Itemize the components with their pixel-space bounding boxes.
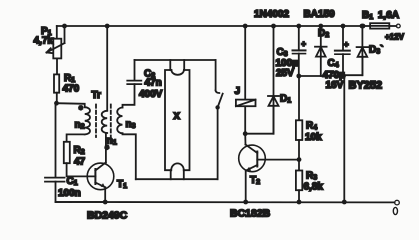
transistor T1 <box>87 163 114 190</box>
svg-text:R2: R2 <box>74 145 85 156</box>
svg-text:+: + <box>301 40 306 49</box>
node C3/R4 junction <box>296 74 301 79</box>
wire fuse to terminal <box>389 25 396 27</box>
fuse B1 <box>370 23 389 28</box>
svg-text:BA159: BA159 <box>304 9 336 20</box>
diode D2 <box>315 47 327 57</box>
wire junction to R4 <box>298 76 300 120</box>
wire switch down <box>217 107 219 179</box>
wire C1 to bottom bus <box>56 182 106 202</box>
node T2 emitter on bus <box>243 200 248 205</box>
svg-text:B1 1,6A: B1 1,6A <box>362 10 399 21</box>
svg-text:T1: T1 <box>117 179 127 190</box>
svg-text:R1: R1 <box>64 73 75 84</box>
wire node down to C1 <box>55 103 57 177</box>
svg-text:10k: 10k <box>305 132 322 143</box>
svg-text:BC182B: BC182B <box>230 208 271 220</box>
resistor R4 <box>296 120 302 140</box>
svg-text:100n: 100n <box>58 188 81 199</box>
transformer Tr core dashed lines <box>96 105 111 138</box>
label 0 <box>393 207 397 214</box>
switch contact J1 <box>216 60 223 107</box>
svg-text:J: J <box>235 86 241 97</box>
node P1 wiper on bus <box>62 24 67 29</box>
node D3 top bus <box>360 24 365 29</box>
wire R1 to node <box>56 93 58 104</box>
wire T2 emitter to bus <box>245 170 247 202</box>
wire C3 drop from bus <box>298 26 300 50</box>
node fuse branch on bus <box>361 24 366 29</box>
svg-text:470: 470 <box>63 84 80 95</box>
node switch to bottom <box>215 105 219 109</box>
wire R4 to node <box>298 140 300 171</box>
wire R3 to bus <box>298 190 300 202</box>
wire junction line y76 <box>299 75 344 77</box>
node n1 top bus <box>105 24 110 29</box>
wire relay node to T2 collector <box>244 134 246 145</box>
capacitor C2 <box>127 81 141 85</box>
node D2 top bus <box>318 24 323 29</box>
node relay bottom / D1 <box>243 131 248 136</box>
wire D3 drop from bus <box>361 26 363 75</box>
svg-text:4,7k: 4,7k <box>34 36 54 47</box>
wire upper horizontal C2 to switch <box>135 59 216 61</box>
svg-text:C4: C4 <box>328 58 339 69</box>
resistor R3 <box>296 171 302 191</box>
wire top bus left corner down to P1 <box>56 26 58 39</box>
svg-text:D1: D1 <box>280 94 291 105</box>
svg-text:Tr: Tr <box>92 90 102 101</box>
wire node to n2 top <box>57 103 85 107</box>
wire junction down to bus <box>343 76 345 202</box>
wire bottom bus <box>56 201 395 203</box>
svg-text:6,8k: 6,8k <box>304 182 324 193</box>
winding n2 <box>85 107 90 134</box>
wire bus to fuse <box>363 25 370 27</box>
wire top bus <box>57 25 363 27</box>
svg-text:16V: 16V <box>326 80 344 91</box>
svg-text:BY252: BY252 <box>349 80 383 92</box>
svg-text:D2: D2 <box>318 28 329 39</box>
winding n3 <box>117 108 122 134</box>
wire C2 bottom to n3 top <box>123 84 135 107</box>
capacitor C1 <box>45 178 65 182</box>
node BY252 line on bus <box>342 200 347 205</box>
node relay top bus <box>243 24 248 29</box>
wire T1 collector to n1 bottom <box>105 133 107 162</box>
svg-text:*: * <box>79 104 83 114</box>
svg-text:T2: T2 <box>250 175 260 186</box>
relay coil J <box>236 100 256 107</box>
svg-text:+: + <box>344 40 349 49</box>
wire relay J drop from bus <box>244 26 246 134</box>
svg-text:x: x <box>174 110 181 122</box>
svg-text:n2: n2 <box>75 120 85 131</box>
node D1 top bus <box>271 24 276 29</box>
resistor R2 <box>64 142 70 163</box>
svg-text:R4: R4 <box>306 121 317 132</box>
resistor R1 <box>54 74 59 92</box>
wire T1 emitter to bus <box>104 187 106 202</box>
wire R2 to T1 base <box>67 163 96 176</box>
wire n2 bottom to R2 <box>67 134 85 141</box>
node R3 on bus <box>297 200 302 205</box>
svg-text:C3: C3 <box>277 47 288 58</box>
svg-text:D3`: D3` <box>369 45 383 56</box>
svg-text:+12V: +12V <box>385 33 405 42</box>
wire n3 bottom to box X bottom wire <box>123 133 136 179</box>
wire C4 to junction <box>342 54 344 76</box>
diode D1 <box>268 26 279 134</box>
terminal +12V <box>396 24 400 28</box>
svg-text:25V: 25V <box>276 68 294 79</box>
node C4 top bus <box>341 24 346 29</box>
winding n1 <box>102 111 107 133</box>
svg-text:n3: n3 <box>126 119 136 130</box>
capacitor C3 <box>293 40 307 54</box>
capacitor C4 <box>335 40 350 54</box>
svg-text:C1: C1 <box>67 176 78 187</box>
wire C2 top to upper wire <box>134 60 136 81</box>
svg-text:1N4002: 1N4002 <box>254 9 289 20</box>
svg-text:47n: 47n <box>145 78 162 89</box>
box X <box>165 60 190 179</box>
diode D3 <box>357 47 369 57</box>
wire C4 drop from bus <box>342 26 344 51</box>
wire D3 to junction <box>344 57 363 75</box>
node T1 emitter on bus <box>103 200 108 205</box>
wire D2 drop from bus <box>320 26 322 76</box>
wire box X bottom <box>136 178 218 180</box>
svg-text:400V: 400V <box>139 89 163 100</box>
wire relay bottom to D1 bottom <box>245 108 273 134</box>
svg-text:BD249C: BD249C <box>87 210 128 222</box>
transistor T2 <box>239 145 266 172</box>
node C3 top bus <box>296 24 301 29</box>
svg-text:R3: R3 <box>306 171 317 182</box>
potentiometer P1 <box>47 26 65 58</box>
node R1/C1/n2 <box>54 101 59 106</box>
terminal 0 <box>395 200 400 205</box>
wire P1 to R1 <box>56 58 58 74</box>
wire C3 to junction <box>298 54 300 76</box>
node R4/R3/base <box>297 157 302 162</box>
svg-text:47: 47 <box>74 157 86 168</box>
node C4/D3 junction <box>341 74 346 79</box>
wire T2 base to divider <box>257 159 299 161</box>
wire n1 top to bus <box>106 26 108 111</box>
